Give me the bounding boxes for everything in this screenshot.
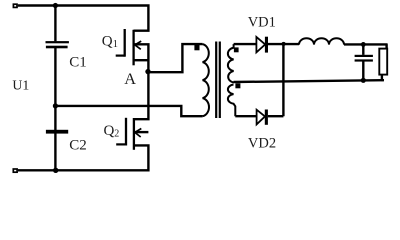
svg-text:Q: Q bbox=[104, 123, 115, 139]
svg-text:C1: C1 bbox=[69, 55, 87, 71]
svg-text:C2: C2 bbox=[69, 137, 87, 153]
svg-text:1: 1 bbox=[113, 39, 118, 50]
svg-text:A: A bbox=[124, 69, 136, 88]
svg-text:2: 2 bbox=[114, 129, 119, 140]
svg-text:VD2: VD2 bbox=[248, 136, 276, 152]
svg-text:VD1: VD1 bbox=[248, 15, 276, 31]
svg-text:Q: Q bbox=[102, 33, 113, 49]
svg-text:U1: U1 bbox=[12, 78, 29, 93]
